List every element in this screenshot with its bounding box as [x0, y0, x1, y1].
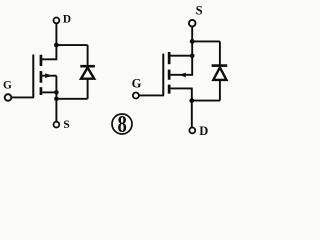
svg-text:G: G	[132, 77, 142, 91]
channel bar source (right FET)	[168, 52, 171, 64]
body diode (right FET): cathode lead	[219, 41, 221, 64]
wire: drain node to diode cathode top	[56, 44, 87, 46]
wire: source lead down from S terminal to body corner (right FET)	[171, 27, 193, 75]
channel bar body (right FET)	[168, 70, 171, 80]
body diode (left FET): anode lead	[87, 79, 89, 99]
body diode (left FET): triangle	[81, 68, 94, 79]
body diode (left FET): cathode bar	[80, 65, 95, 68]
terminal G (right FET)	[133, 93, 139, 99]
figure number circle 8	[112, 114, 132, 134]
junction dot: diode anode to drain node (right FET)	[189, 98, 194, 103]
body diode (left FET): cathode lead	[87, 45, 89, 65]
junction dot: diode anode to source node	[54, 97, 59, 102]
junction dot: source bar to source node	[54, 90, 59, 95]
wire: body lead (left FET)	[42, 75, 56, 77]
junction dot: source bar node (right FET)	[190, 54, 195, 59]
body diode (right FET): cathode bar	[212, 64, 228, 67]
wire: drain bar lead then down to D terminal (right FET)	[171, 88, 192, 127]
terminal D (left FET)	[54, 18, 60, 24]
body diode (right FET): anode lead	[219, 80, 221, 101]
wire: diode anode to source node	[56, 98, 87, 100]
channel bar source (left FET)	[40, 87, 43, 95]
wire: drain lead down from D terminal to drain bar	[42, 24, 56, 60]
svg-text:S: S	[196, 3, 203, 17]
gate electrode line (right FET)	[162, 54, 164, 96]
wire: source bar lead (right FET)	[171, 55, 193, 57]
svg-text:S: S	[63, 119, 69, 131]
wire: source vertical (left FET)	[55, 76, 57, 122]
arrow on body lead (left FET)	[45, 73, 52, 78]
svg-text:G: G	[3, 80, 12, 92]
wire: gate lead to G terminal	[11, 96, 34, 98]
terminal S (right FET)	[189, 20, 196, 27]
wire: source node to diode top (right FET)	[192, 40, 220, 42]
terminal S (left FET)	[54, 122, 60, 128]
svg-text:D: D	[199, 124, 208, 138]
wire: gate lead to G terminal (right FET)	[139, 94, 164, 96]
channel bar drain (left FET)	[40, 55, 43, 66]
wire: diode anode to drain node (right FET)	[192, 100, 220, 102]
body diode (right FET): triangle	[213, 67, 226, 80]
arrow on body lead (right FET)	[179, 73, 186, 78]
terminal D (right FET)	[189, 127, 195, 133]
channel bar body (left FET)	[40, 71, 43, 83]
channel bar drain (right FET)	[168, 85, 171, 94]
junction dot: source node to diode cathode (right FET)	[190, 39, 195, 44]
wire: source bar lead (left FET)	[42, 91, 56, 93]
svg-text:D: D	[63, 13, 71, 25]
junction dot: drain node to body diode	[54, 43, 59, 48]
terminal G (left FET)	[5, 94, 12, 101]
gate electrode line (left FET)	[32, 55, 34, 98]
svg-text:8: 8	[118, 111, 127, 138]
